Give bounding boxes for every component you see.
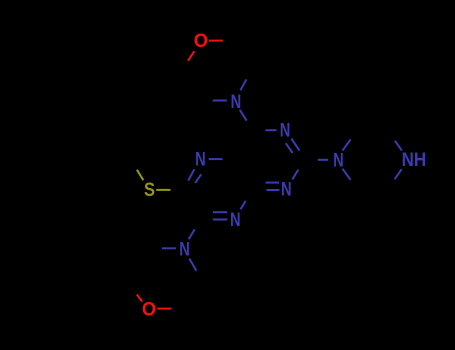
wire N1=C8a inner [266, 182, 280, 184]
wire O-C top morpholine right [209, 40, 223, 42]
wire N5=C6 outer [188, 169, 194, 181]
wire C6-S [156, 189, 170, 191]
wire N5-C4a [209, 158, 223, 160]
svg-text:N: N [179, 239, 190, 260]
wire C2-N1 [292, 170, 298, 180]
svg-text:N: N [231, 92, 242, 113]
wire N5=C6 inner [195, 174, 201, 183]
wire Obot-C upleft [137, 294, 142, 301]
svg-text:S: S [144, 180, 155, 201]
svg-text:N: N [195, 150, 206, 171]
wire S-CH2 [137, 170, 143, 181]
wire Nbot-C left [162, 247, 176, 249]
wire C7=N8 outer [213, 219, 227, 221]
wire C4-N3 [265, 129, 276, 131]
wire N3=C2 outer [291, 139, 299, 151]
svg-text:N: N [281, 180, 292, 201]
svg-text:N: N [280, 120, 291, 141]
svg-text:N: N [333, 151, 344, 172]
wire N3=C2 inner [286, 143, 293, 153]
wire C2-Npip [318, 159, 328, 161]
wire N-C4 [240, 110, 247, 121]
wire N1=C8a outer [266, 189, 279, 191]
svg-text:NH: NH [402, 150, 427, 171]
wire C7=N8 inner [213, 211, 227, 213]
wire Nbot-C7 [189, 229, 195, 239]
wire Npip-C topleft [343, 139, 351, 150]
wire Nbot-C downright [189, 259, 196, 271]
svg-text:O: O [194, 31, 208, 52]
wire O-C top morpholine downleft [188, 51, 194, 61]
svg-text:O: O [142, 300, 156, 321]
wire N-C top morpholine upright [240, 79, 246, 90]
wire Npip-C bottomleft [343, 169, 351, 180]
wire N-C top morpholine left [213, 100, 227, 102]
wire Obot-C right [157, 308, 171, 310]
wire NH-C topright [395, 141, 402, 151]
svg-text:N: N [230, 210, 241, 231]
wire N8-C8a [241, 201, 246, 210]
wire NH-C bottomright [395, 169, 402, 179]
